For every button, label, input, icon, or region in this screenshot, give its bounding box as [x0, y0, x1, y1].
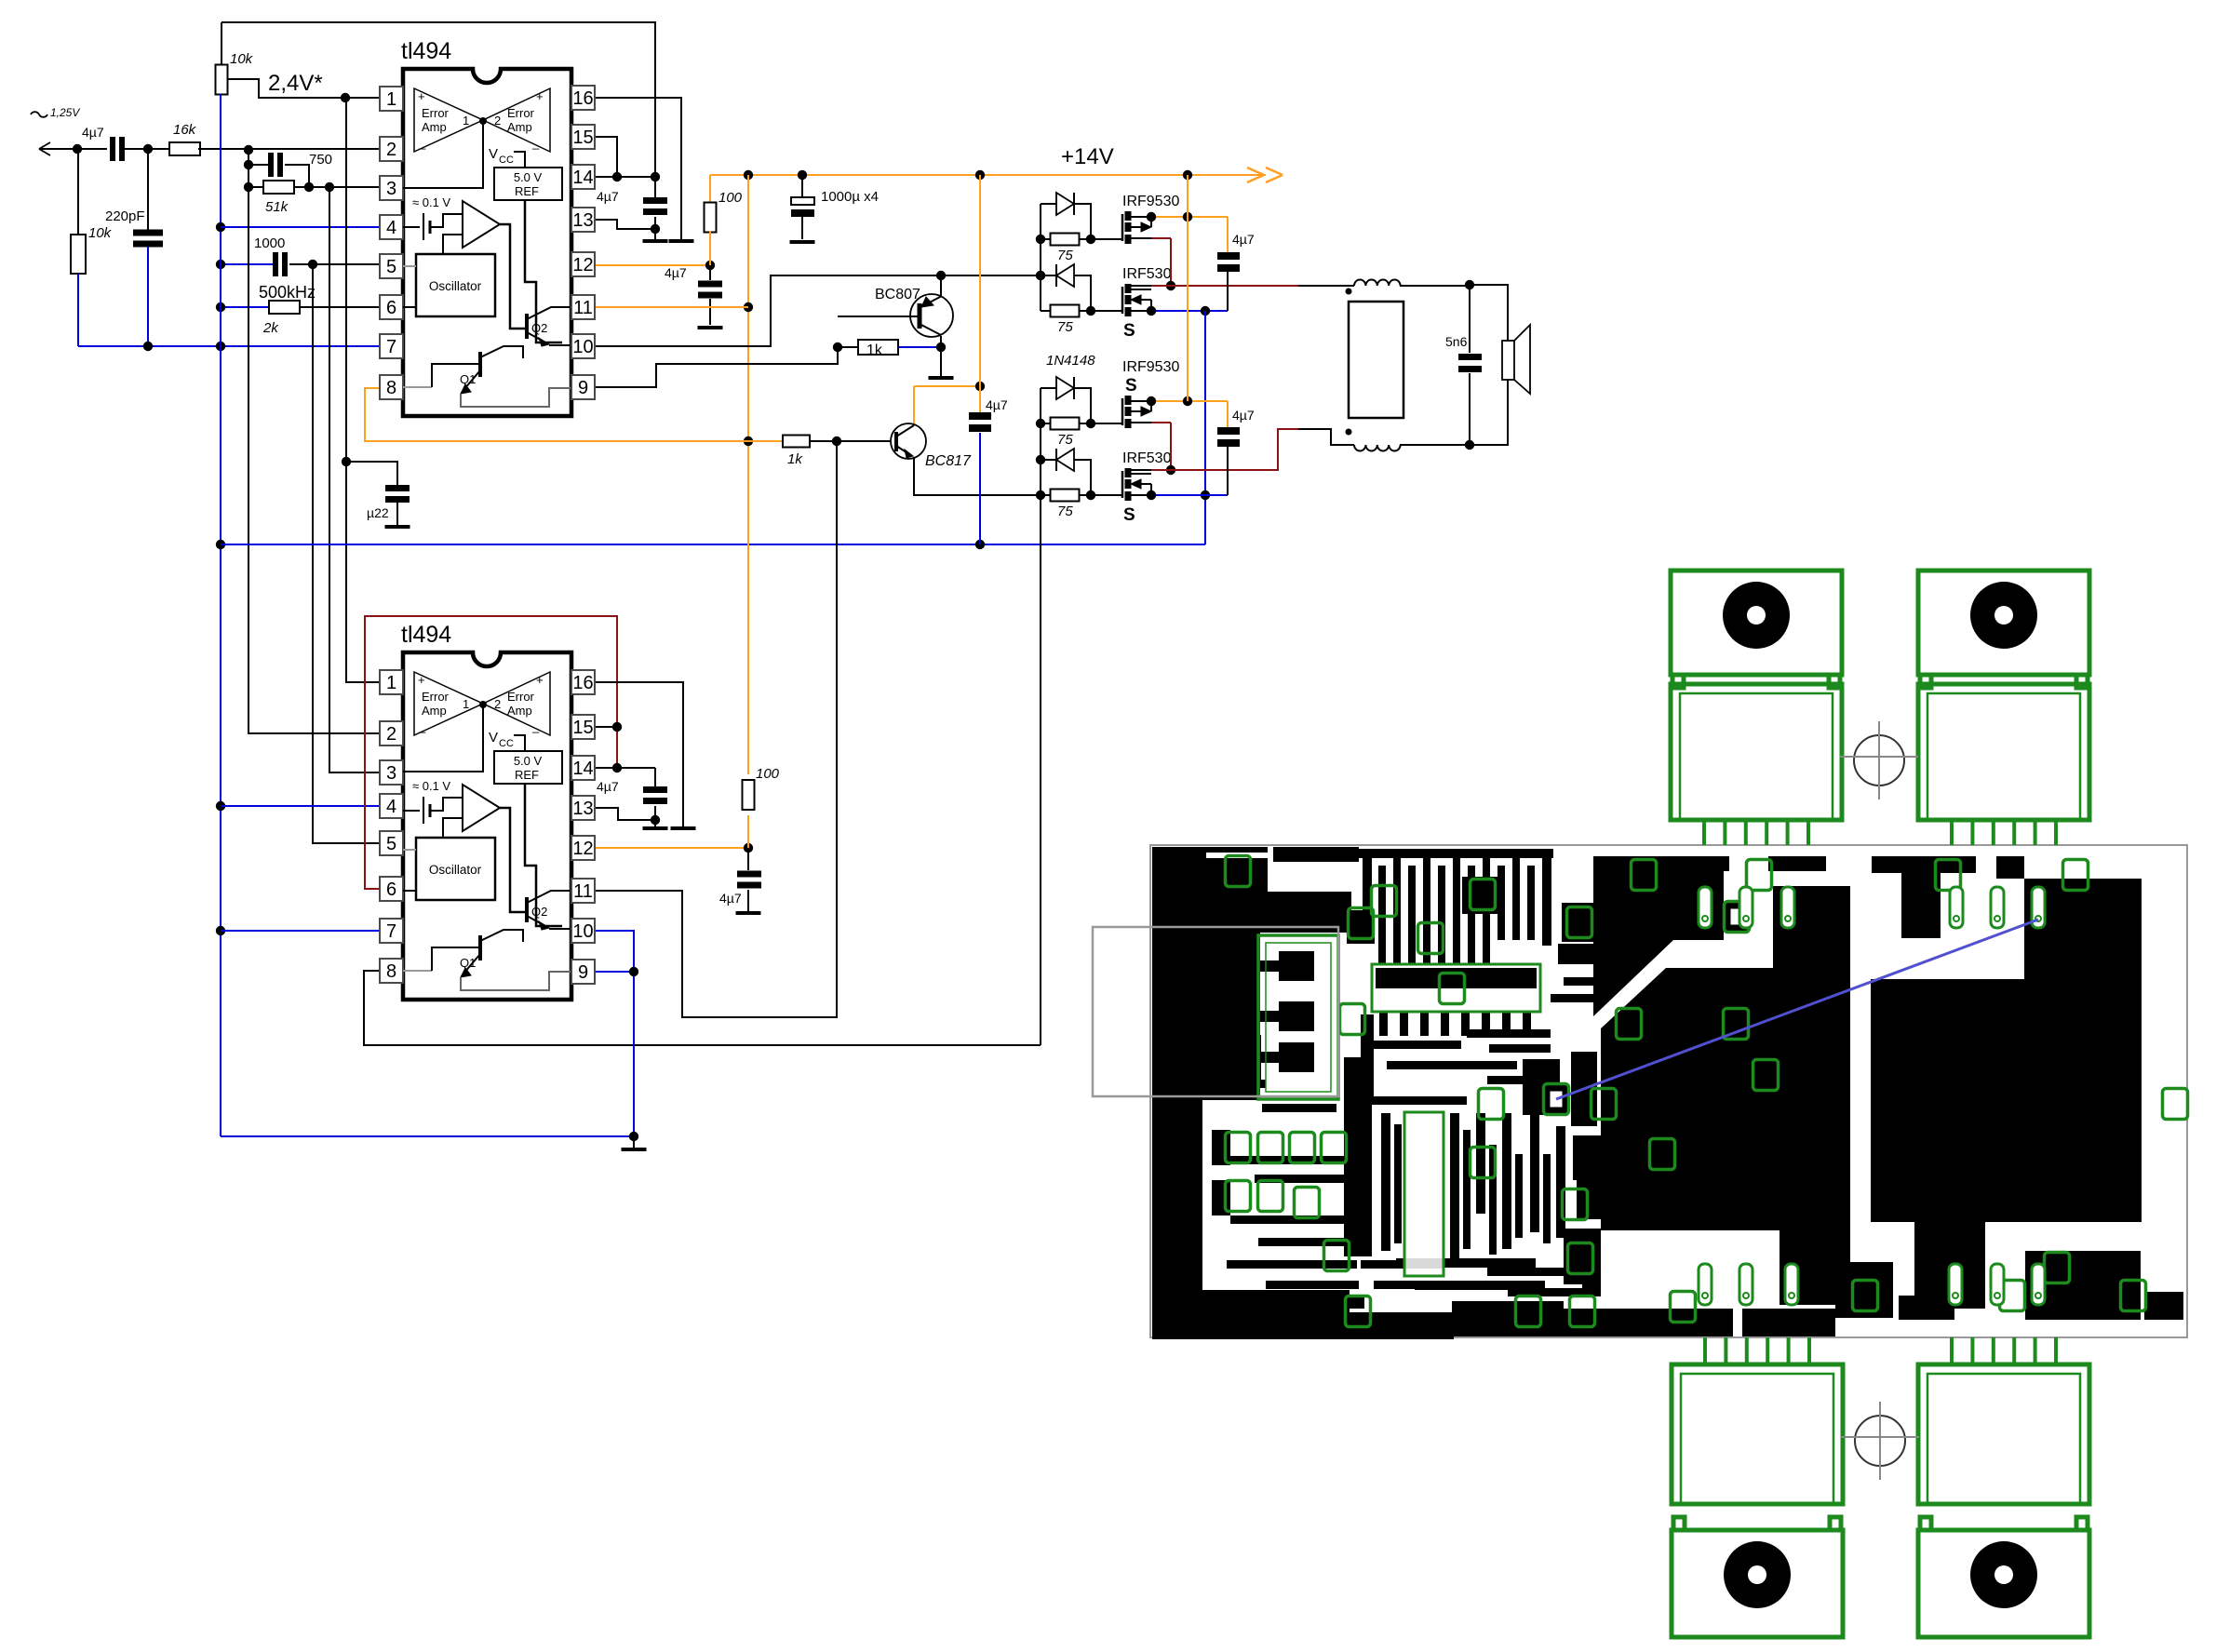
PCB TL494 footprint pads: [1376, 968, 1537, 1036]
PCB center vertical trace bundle: [1381, 1113, 1565, 1258]
svg-text:6: 6: [386, 298, 396, 318]
U1 pin 8: [380, 375, 403, 399]
svg-text:11: 11: [573, 881, 593, 902]
wire pin7 ground sense blue: [78, 342, 403, 351]
U2 pin 13: [571, 796, 595, 820]
vertical net pin1 to chip2 pin1: [346, 98, 403, 682]
chip2 pin16 wire to ground: [595, 682, 683, 826]
wire IRF530-2 drain maroon: [1131, 469, 1171, 471]
svg-text:1: 1: [463, 697, 469, 711]
resistor 51k: [244, 181, 403, 215]
wire pin14 chip1: [595, 172, 660, 181]
sine source symbol 1,25V: [31, 106, 80, 119]
transistor package TO-220 top-left: [1671, 571, 1842, 845]
ground pin14-cap chip1: [643, 239, 668, 243]
PCB bottom strip and clusters: [1454, 1251, 2183, 1336]
svg-text:15: 15: [572, 718, 593, 738]
PCB green SMD pads: [1226, 856, 2188, 1327]
svg-text:4µ7: 4µ7: [1232, 232, 1255, 247]
wire pin13 chip1: [595, 220, 655, 229]
wire chip2 pin7 blue: [221, 930, 403, 932]
gate leads y257 y334: [1091, 239, 1122, 311]
svg-text:tl494: tl494: [401, 622, 451, 648]
ground pin16 chip1: [669, 239, 694, 243]
resistor R-10k left: [71, 149, 113, 346]
wire top 5V-REF feed: [222, 22, 655, 177]
svg-text:_: _: [531, 719, 540, 733]
svg-text:10k: 10k: [88, 225, 113, 241]
bootstrap capacitor 4u7 no1: [1217, 217, 1255, 311]
svg-text:V: V: [489, 730, 498, 745]
svg-text:5.0 V: 5.0 V: [514, 754, 543, 768]
svg-text:100: 100: [719, 190, 743, 206]
ground BC807 emitter: [929, 347, 954, 380]
svg-text:10: 10: [572, 921, 593, 942]
svg-text:Error: Error: [422, 690, 450, 704]
svg-text:IRF9530: IRF9530: [1122, 194, 1179, 209]
orange vertical x=1276: [1187, 175, 1189, 401]
inductor winding bottom: [1346, 429, 1475, 451]
svg-text:_: _: [418, 136, 426, 150]
U1 0.1V battery: [403, 195, 463, 240]
svg-text:5: 5: [386, 834, 396, 854]
PCB board outline: [1150, 845, 2187, 1337]
svg-text:51k: 51k: [265, 199, 289, 215]
U2 error amp 2: [483, 672, 550, 735]
svg-text:2k: 2k: [262, 320, 279, 336]
U1 transistor Q1: [403, 346, 571, 407]
IC U2 tl494 label: [401, 622, 451, 648]
U1 pin 6: [380, 295, 403, 319]
diode D-down y494: [1041, 449, 1091, 495]
capacitor 4u7 at pin12 chip1: [665, 265, 723, 329]
inductor winding top: [1346, 279, 1475, 294]
svg-text:8: 8: [386, 961, 396, 982]
svg-text:8: 8: [386, 378, 396, 398]
U2 pin 1: [380, 670, 403, 694]
svg-text:16k: 16k: [173, 122, 197, 138]
transistor BC817: [810, 423, 972, 469]
IC U2 TL494 body outline: [403, 652, 571, 1000]
gate network rail left x=1118 y219: [1036, 204, 1045, 311]
capacitor 750: [244, 152, 332, 192]
svg-text:Amp: Amp: [507, 704, 532, 718]
svg-text:+: +: [418, 673, 425, 687]
PCB green through-hole slots: [1699, 887, 2045, 1305]
svg-text:10k: 10k: [230, 51, 254, 67]
chip2 pin13 wire: [595, 808, 655, 820]
U2 feedback wire pin3 to amp node: [403, 701, 487, 772]
vertical x=1118 rail feed down to chip2 pin8: [1040, 495, 1041, 1045]
U2 pin 14: [571, 756, 595, 780]
chip2 pin11 wire to BC817 base: [595, 441, 837, 1017]
svg-text:Q1: Q1: [460, 372, 476, 386]
U2 error amp 1: [414, 672, 483, 735]
wire chip2 pin4 blue: [221, 805, 403, 807]
svg-text:750: 750: [309, 152, 332, 168]
U1 Vcc label: [489, 146, 525, 168]
U1 5.0V REF box: [494, 168, 562, 342]
svg-text:2,4V*: 2,4V*: [268, 71, 323, 96]
svg-text:≈ 0.1 V: ≈ 0.1 V: [412, 779, 450, 793]
svg-text:+14V: +14V: [1061, 144, 1114, 169]
svg-text:Q2: Q2: [531, 905, 547, 919]
svg-text:2: 2: [494, 114, 501, 128]
ground chip2 pin16: [671, 826, 696, 830]
svg-text:REF: REF: [515, 184, 539, 198]
node 2,4V* wire to pin1: [227, 71, 403, 102]
ground chip2 cap: [643, 826, 668, 830]
PCB pour north-east wedge: [1593, 856, 1724, 1016]
PCB black pads in connector: [1258, 951, 1314, 1072]
U1 pin 4: [380, 215, 403, 239]
transistor IRF530: [1122, 266, 1172, 341]
svg-text:1: 1: [386, 89, 396, 110]
transistor package TO-220 top-right: [1918, 571, 2089, 845]
svg-text:S: S: [1123, 505, 1135, 525]
U2 oscillator box: [403, 818, 495, 900]
svg-text:REF: REF: [515, 768, 539, 782]
capacitor 1000 500kHz: [216, 235, 403, 302]
svg-text:Oscillator: Oscillator: [429, 279, 482, 293]
U2 pin 10: [571, 919, 595, 943]
U2 pin 12: [571, 836, 595, 860]
U1 pin 11: [571, 295, 595, 319]
svg-text:Q1: Q1: [460, 956, 476, 970]
U1 pin 9: [571, 375, 595, 399]
svg-text:≈ 0.1 V: ≈ 0.1 V: [412, 195, 450, 209]
resistor 1k BC817 base: [748, 436, 841, 468]
diode D-up y417: [1041, 377, 1091, 423]
U2 pin 9: [571, 960, 595, 984]
long blue vertical bus x=237: [216, 94, 225, 1136]
U1 pin 14: [571, 165, 595, 189]
U1 pin 7: [380, 334, 403, 358]
wire pin15 chip1: [595, 137, 622, 181]
svg-text:V: V: [489, 146, 498, 162]
svg-text:µ22: µ22: [367, 505, 389, 520]
chip2 pin14 wire: [595, 767, 655, 769]
U1 transistor Q2: [527, 307, 571, 346]
transistor package TO-220 bottom-left: [1672, 1337, 1843, 1637]
wire IRF9530-2 drain orange: [1147, 396, 1228, 406]
svg-text:Oscillator: Oscillator: [429, 863, 482, 877]
transistor BC807: [838, 275, 953, 347]
resistor 2k: [216, 301, 403, 336]
bootstrap capacitor 4u7 no2: [1217, 401, 1255, 495]
chip2 pin15 wire: [595, 726, 617, 728]
transistor IRF9530: [1122, 194, 1179, 244]
svg-text:2: 2: [386, 724, 396, 745]
svg-text:16: 16: [572, 673, 593, 693]
+14V rail orange: [710, 144, 1283, 182]
U1 comparator: [463, 201, 525, 329]
wire BC817 collector orange: [914, 382, 985, 423]
capacitor 4u7 at pin14 chip1: [597, 177, 667, 239]
U2 transistor Q1: [403, 930, 571, 990]
wire IRF530-1 drain maroon: [1131, 285, 1171, 287]
chip2 pin8 wire: [364, 971, 1041, 1045]
svg-text:16: 16: [572, 88, 593, 109]
U2 pin 4: [380, 794, 403, 818]
ground bottom bus: [622, 1136, 647, 1151]
svg-text:+: +: [536, 673, 544, 687]
U2 pin 15: [571, 715, 595, 739]
wire pin11 orange chip1: [595, 306, 748, 308]
transformer core: [1349, 302, 1403, 418]
PCB drill crosshair bottom: [1841, 1402, 1919, 1480]
svg-text:4µ7: 4µ7: [719, 891, 742, 906]
speaker: [1470, 285, 1530, 445]
PCB green footprint vertical IC: [1404, 1112, 1444, 1276]
U2 Vcc label: [489, 730, 525, 751]
capacitor 4u7 chip2 pin14: [597, 768, 667, 826]
svg-text:_: _: [531, 136, 540, 150]
svg-text:14: 14: [572, 168, 593, 188]
svg-text:Error: Error: [422, 106, 450, 120]
diode D-down y296: [1041, 264, 1091, 311]
svg-text:75: 75: [1057, 319, 1073, 335]
resistor 75 y334: [1041, 305, 1095, 336]
U1 error amp 2: [483, 88, 550, 152]
PCB pour right: [1871, 879, 2142, 1309]
blue ground bus y=585: [221, 540, 1205, 549]
maroon output wire 1: [1171, 285, 1354, 287]
svg-text:12: 12: [572, 255, 593, 275]
U2 0.1V battery: [403, 779, 463, 824]
svg-text:4µ7: 4µ7: [597, 779, 619, 794]
wire IRF9530-1 drain orange: [1147, 212, 1228, 222]
svg-text:4: 4: [386, 218, 396, 238]
maroon output wire 2: [1171, 429, 1354, 470]
wire IRF9530-1 source maroon: [1151, 238, 1175, 290]
input wire with arrow: [39, 142, 107, 155]
PCB extra trace texture: [1197, 877, 1601, 1296]
IC U1 tl494 label: [401, 38, 451, 64]
U2 transistor Q2: [527, 891, 571, 930]
resistor 1k BC807: [838, 340, 946, 358]
svg-text:Error: Error: [507, 106, 535, 120]
capacitor 4u7 chip2 pin12: [719, 848, 761, 915]
chip2 maroon loop pin6-pin15-pin14: [365, 616, 622, 889]
PCB drill crosshair top: [1840, 721, 1918, 799]
vertical net pin5-chip1 to pin5-chip2: [313, 264, 403, 843]
U1 pin 15: [571, 125, 595, 149]
PCB blue ratsnest line: [1556, 920, 2038, 1099]
svg-text:4µ7: 4µ7: [82, 125, 104, 140]
svg-text:75: 75: [1057, 432, 1073, 448]
chip2 pin10 pin9 blue: [595, 931, 638, 1141]
svg-text:1000: 1000: [254, 235, 285, 251]
U1 pin 3: [380, 176, 403, 200]
svg-text:3: 3: [386, 179, 396, 199]
svg-text:5.0 V: 5.0 V: [514, 170, 543, 184]
svg-text:4: 4: [386, 797, 396, 817]
capacitor 1000u x4: [790, 175, 880, 244]
svg-text:2: 2: [494, 697, 501, 711]
svg-text:12: 12: [572, 839, 593, 859]
U2 pin 7: [380, 919, 403, 943]
svg-text:3: 3: [386, 763, 396, 784]
U1 pin 13: [571, 208, 595, 232]
U1 feedback wire pin3 to amp node: [403, 117, 487, 188]
resistor 75 y257: [1041, 234, 1095, 264]
blue vertical x=1295: [1201, 311, 1210, 544]
orange vertical x=1053 and cap 4u7: [969, 175, 1008, 544]
capacitor 220pF: [105, 149, 163, 346]
U2 pin 5: [380, 831, 403, 855]
vertical net pin2-chip1 to pin2-chip2: [244, 145, 403, 733]
svg-text:Amp: Amp: [422, 120, 447, 134]
svg-text:75: 75: [1057, 504, 1073, 519]
U1 pin 12: [571, 252, 595, 276]
wire pin10 chip1 to gate network: [595, 271, 1045, 346]
U1 pin 1: [380, 87, 403, 111]
svg-text:1000µ x4: 1000µ x4: [821, 189, 879, 205]
U2 comparator: [463, 785, 525, 912]
svg-text:BC807: BC807: [875, 287, 920, 302]
svg-text:IRF530: IRF530: [1122, 266, 1172, 282]
resistor 75 y455: [1041, 418, 1095, 449]
IC U1 TL494 body outline: [403, 69, 571, 416]
svg-text:1N4148: 1N4148: [1046, 353, 1095, 369]
capacitor u22: [342, 457, 410, 529]
PCB green footprint TL494: [1372, 964, 1540, 1012]
resistor 16k: [169, 122, 403, 155]
U2 5.0V REF box: [494, 751, 562, 926]
svg-text:tl494: tl494: [401, 38, 451, 64]
U2 pin 2: [380, 721, 403, 745]
diode D-up y219: [1041, 193, 1091, 239]
orange wire chip1 pin8: [365, 388, 748, 441]
U2 pin 3: [380, 760, 403, 785]
svg-text:7: 7: [386, 337, 396, 357]
PCB traces under footprint: [1355, 1014, 1560, 1115]
resistor R-10k top: [216, 22, 254, 95]
svg-text:6: 6: [386, 880, 396, 900]
svg-text:S: S: [1125, 376, 1137, 396]
PCB traces bottom-left cluster: [1206, 1057, 1605, 1312]
transistor IRF9530: [1122, 359, 1179, 428]
capacitor 4u7 input: [82, 125, 171, 161]
U1 pin 2: [380, 137, 403, 161]
U2 pin 6: [380, 877, 403, 901]
svg-text:500kHz: 500kHz: [259, 283, 316, 302]
wire IRF530-2 source blue: [1147, 490, 1228, 500]
U1 pin 10: [571, 334, 595, 358]
transistor IRF530: [1122, 450, 1172, 525]
capacitor 5n6: [1445, 285, 1482, 445]
svg-text:100: 100: [756, 766, 780, 782]
svg-text:15: 15: [572, 128, 593, 148]
svg-text:13: 13: [572, 799, 593, 819]
svg-text:2: 2: [386, 140, 396, 160]
gate leads y455 y532: [1091, 423, 1122, 495]
wire pin4 blue chip1: [221, 226, 403, 228]
U2 pin 8: [380, 959, 403, 983]
svg-text:IRF9530: IRF9530: [1122, 359, 1179, 375]
svg-text:Amp: Amp: [422, 704, 447, 718]
svg-text:5: 5: [386, 257, 396, 277]
U1 pin 16: [571, 86, 595, 110]
svg-text:+: +: [536, 89, 544, 103]
resistor 100 chip1: [705, 175, 743, 265]
svg-text:Error: Error: [507, 690, 535, 704]
PCB pads cluster top right: [1629, 856, 2024, 938]
U1 pin 5: [380, 254, 403, 278]
chip2 pin12 orange wire: [595, 843, 753, 853]
PCB copper pour top-left: [1152, 847, 1454, 1339]
svg-text:BC817: BC817: [925, 453, 972, 469]
PCB green connector footprint: [1258, 935, 1338, 1099]
vertical net pin3-chip1 to pin3-chip2: [329, 187, 403, 772]
svg-text:IRF530: IRF530: [1122, 450, 1172, 466]
svg-text:1: 1: [386, 673, 396, 693]
svg-text:14: 14: [572, 759, 593, 779]
U2 pin 11: [571, 879, 595, 903]
wire IRF9530-2 source maroon: [1151, 423, 1175, 475]
PCB trace fan top middle: [1358, 849, 1553, 964]
PCB gray connector outline: [1093, 927, 1338, 1096]
svg-text:CC: CC: [499, 154, 514, 166]
resistor 75 y532: [1041, 490, 1095, 520]
svg-text:1: 1: [463, 114, 469, 128]
svg-text:_: _: [418, 719, 426, 733]
svg-text:13: 13: [572, 210, 593, 231]
gate network rail left x=1118 y417: [1036, 388, 1045, 495]
svg-text:4µ7: 4µ7: [986, 397, 1008, 412]
PCB pad blocks top: [1347, 877, 1614, 964]
svg-text:Q2: Q2: [531, 321, 547, 335]
svg-text:9: 9: [578, 962, 588, 983]
svg-text:Amp: Amp: [507, 120, 532, 134]
wire pin16 chip1 to ground: [595, 98, 681, 239]
svg-text:4µ7: 4µ7: [665, 265, 687, 280]
label 1N4148: [1046, 353, 1095, 369]
svg-text:1,25V: 1,25V: [50, 106, 80, 119]
svg-text:11: 11: [573, 298, 593, 318]
wire pin12 orange chip1: [595, 261, 715, 270]
svg-text:+: +: [418, 89, 425, 103]
svg-text:9: 9: [578, 378, 588, 398]
svg-text:1k: 1k: [866, 342, 883, 358]
transistor package TO-220 bottom-right: [1918, 1337, 2089, 1637]
wire BC817 emitter: [914, 457, 1045, 500]
svg-text:10: 10: [572, 337, 593, 357]
wire pin9 chip1: [595, 342, 842, 387]
PCB pour middle: [1601, 886, 1850, 1305]
svg-text:5n6: 5n6: [1445, 334, 1468, 349]
svg-text:4µ7: 4µ7: [597, 189, 619, 204]
svg-text:75: 75: [1057, 248, 1073, 263]
U2 pin 16: [571, 670, 595, 694]
blue bottom bus to ground: [221, 1135, 634, 1137]
svg-text:4µ7: 4µ7: [1232, 408, 1255, 423]
U1 error amp 1: [414, 88, 483, 152]
wire IRF530-1 source blue: [1147, 306, 1228, 316]
svg-text:S: S: [1123, 321, 1135, 341]
U1 oscillator box: [403, 235, 495, 316]
svg-text:1k: 1k: [787, 451, 803, 467]
svg-text:7: 7: [386, 921, 396, 942]
svg-text:220pF: 220pF: [105, 208, 145, 224]
orange vertical x=804: [744, 175, 753, 774]
svg-text:CC: CC: [499, 738, 514, 749]
resistor 100 chip2: [743, 766, 780, 848]
